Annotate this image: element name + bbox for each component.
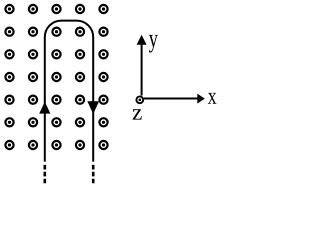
field symbol B out of page r5c3	[52, 96, 60, 104]
field symbol B out of page r7c3	[52, 141, 60, 149]
arrowhead up on left trajectory line	[39, 102, 50, 114]
field symbol B out of page r5c5	[99, 96, 107, 104]
field symbol B out of page r1c3	[52, 5, 60, 13]
field symbol B out of page r1c5	[99, 5, 107, 13]
field symbol B out of page r2c5	[99, 28, 107, 36]
field symbol B out of page r3c2	[29, 50, 37, 58]
y axis line	[141, 44, 143, 96]
field symbol B out of page r4c1	[5, 73, 13, 81]
particle trajectory U-turn path	[45, 21, 93, 162]
x axis arrowhead	[197, 94, 205, 104]
field symbol B out of page r4c4	[76, 73, 84, 81]
label y	[149, 35, 158, 53]
field symbol B out of page r7c2	[29, 141, 37, 149]
field symbol B out of page r7c5	[99, 141, 107, 149]
field symbol B out of page r3c4	[76, 50, 84, 58]
dashed continuation left	[43, 165, 46, 184]
arrowhead down on right trajectory line	[87, 101, 99, 114]
x axis line	[144, 98, 198, 100]
field symbol B out of page r1c2	[29, 5, 37, 13]
field symbol B out of page r2c2	[29, 28, 37, 36]
field symbol B out of page r6c2	[29, 118, 37, 126]
field symbol B out of page r3c5	[99, 50, 107, 58]
field symbol B out of page r4c5	[99, 73, 107, 81]
field symbol B out of page r1c1	[5, 5, 13, 13]
field symbol B out of page r5c1	[5, 96, 13, 104]
origin symbol z out of page	[136, 96, 143, 103]
field symbol B out of page r1c4	[76, 5, 84, 13]
field symbol B out of page r2c4	[76, 28, 84, 36]
field symbol B out of page r3c1	[5, 50, 13, 58]
y axis arrowhead	[137, 35, 147, 45]
field symbol B out of page r6c4	[76, 118, 84, 126]
field symbol B out of page r3c3	[52, 50, 60, 58]
field symbol B out of page r5c2	[29, 96, 37, 104]
dashed continuation right	[92, 165, 95, 184]
field symbol B out of page r2c1	[5, 28, 13, 36]
label x	[208, 93, 217, 104]
field symbol B out of page r4c3	[52, 73, 60, 81]
label z	[133, 109, 142, 119]
field symbol B out of page r7c4	[76, 141, 84, 149]
field symbol B out of page r5c4	[76, 96, 84, 104]
field symbol B out of page r6c3	[52, 118, 60, 126]
field symbol B out of page r2c3	[52, 28, 60, 36]
field symbol B out of page r6c1	[5, 118, 13, 126]
field symbol B out of page r7c1	[5, 141, 13, 149]
field symbol B out of page r4c2	[29, 73, 37, 81]
field symbol B out of page r6c5	[99, 118, 107, 126]
